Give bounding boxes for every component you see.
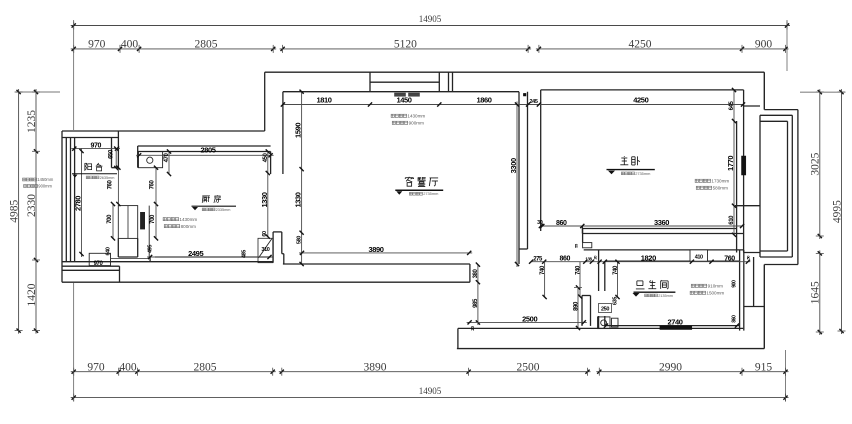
svg-text:14905: 14905 (419, 14, 442, 24)
room label: balcony (84, 163, 86, 171)
svg-text:2735mm: 2735mm (423, 191, 438, 196)
interior chain top wall 1810/1450/1860/245/4250 (283, 104, 743, 106)
svg-text:4995: 4995 (831, 200, 843, 223)
bathroom right wall (739, 250, 741, 331)
svg-text:650: 650 (108, 149, 114, 159)
svg-text:760: 760 (724, 256, 735, 263)
svg-text:410: 410 (695, 254, 703, 260)
left outer total 4985 (18, 89, 20, 334)
outer wall: left edge (61, 131, 63, 282)
room label: master bedroom (623, 155, 625, 158)
svg-text:400: 400 (121, 39, 139, 51)
corridor bottom 2500 (467, 321, 587, 323)
outer dimension: top total 14905 (71, 25, 790, 27)
bathroom bottom inner face (605, 325, 740, 327)
shaft between corridor and bathroom (582, 228, 584, 243)
svg-text:5120: 5120 (394, 39, 417, 51)
svg-text:2500: 2500 (517, 361, 540, 373)
svg-text:970: 970 (88, 39, 106, 51)
outer wall: top edge of left wing (62, 130, 265, 132)
living bottom 3890 (299, 252, 472, 254)
svg-text:700: 700 (150, 214, 156, 224)
bay window top connection (744, 105, 760, 107)
svg-text:450: 450 (263, 153, 269, 163)
window W2 living north 1450 (369, 72, 371, 92)
living bottom wall (283, 263, 470, 265)
bedroom bottom wall (582, 228, 736, 230)
svg-text:310: 310 (261, 247, 269, 253)
svg-text:2780: 2780 (74, 196, 83, 211)
svg-text:1450: 1450 (396, 96, 411, 105)
svg-text:970: 970 (90, 143, 101, 150)
svg-text:250: 250 (601, 307, 609, 313)
bay window glass plane (759, 115, 761, 257)
bedroom east wall (736, 121, 738, 253)
svg-text:2805: 2805 (195, 39, 218, 51)
corridor/bathroom top chain (531, 261, 750, 263)
column lines in top wall (448, 72, 450, 92)
svg-text:3025: 3025 (810, 152, 822, 175)
svg-text:740: 740 (540, 265, 546, 275)
wall living west outer (264, 72, 266, 131)
svg-text:4250: 4250 (629, 39, 652, 51)
bottom outer wall south wing (458, 327, 743, 329)
bottom total 14905 (71, 397, 789, 399)
washbasin box (598, 317, 611, 329)
living east 3300 (516, 102, 518, 268)
bathroom left wall lower stub (598, 316, 600, 328)
room label: kitchen (202, 195, 210, 197)
svg-text:2805: 2805 (200, 146, 215, 155)
balcony south window lines (62, 265, 120, 267)
extension lines bottom corners (73, 283, 75, 401)
svg-text:760: 760 (150, 180, 156, 190)
living window annotation (391, 114, 394, 117)
bay window middle frame (760, 114, 792, 116)
svg-text:2495: 2495 (188, 249, 203, 258)
svg-text:60: 60 (262, 231, 268, 237)
bathroom top wall (584, 249, 744, 251)
bedroom top wall inner face (541, 89, 744, 91)
svg-text:970: 970 (94, 261, 104, 267)
tiny sub-dims above 1450 (395, 93, 406, 96)
balcony dims (71, 148, 120, 150)
svg-text:860: 860 (732, 315, 738, 323)
svg-text:2805: 2805 (194, 361, 217, 373)
380/985/20 chain at wall end (477, 265, 479, 325)
svg-text:580mm: 580mm (713, 186, 728, 191)
svg-text:1450mm: 1450mm (37, 177, 54, 182)
top wall inner face living (283, 91, 519, 93)
svg-text:30: 30 (537, 220, 543, 226)
svg-text:1330: 1330 (260, 192, 269, 207)
svg-text:2135mm: 2135mm (658, 294, 673, 298)
svg-text:900: 900 (755, 39, 773, 51)
svg-text:800mm: 800mm (181, 224, 196, 229)
svg-text:1330: 1330 (294, 192, 303, 207)
890 dim corridor (577, 288, 579, 329)
svg-text:890: 890 (573, 301, 579, 311)
svg-text:14905: 14905 (419, 386, 442, 396)
svg-text:1590: 1590 (294, 123, 303, 138)
kitchen annotation (163, 218, 166, 221)
bathroom left wall upper (598, 250, 600, 291)
svg-text:900: 900 (732, 280, 738, 288)
svg-text:645: 645 (729, 101, 735, 111)
bay window outer frame (764, 109, 798, 111)
svg-text:985: 985 (473, 298, 479, 308)
svg-text:1430mm: 1430mm (407, 114, 425, 119)
svg-text:3300: 3300 (509, 158, 518, 173)
svg-text:275: 275 (533, 257, 543, 263)
svg-text:1820: 1820 (641, 254, 656, 263)
bedroom window annotation (695, 179, 698, 182)
svg-text:900mm: 900mm (409, 121, 424, 126)
svg-text:1500mm: 1500mm (706, 291, 724, 296)
svg-text:2330: 2330 (26, 194, 38, 217)
bedroom east chain 645/1770/610 (733, 90, 735, 235)
svg-text:860: 860 (556, 220, 567, 227)
washing machine box in 400 divider (118, 206, 137, 239)
svg-text:4250: 4250 (633, 96, 648, 105)
left chain 1235/2330/1420 (35, 89, 37, 334)
right outer total 4995 (841, 89, 843, 334)
svg-text:245: 245 (530, 99, 538, 105)
svg-text:3360: 3360 (654, 218, 669, 227)
top dimension chain (71, 48, 277, 50)
svg-text:1730mm: 1730mm (711, 179, 729, 184)
divider cabinet below washer (117, 238, 119, 257)
svg-text:915: 915 (755, 361, 773, 373)
svg-text:2335mm: 2335mm (216, 208, 231, 212)
760/760 door dims (117, 168, 119, 204)
svg-text:740: 740 (613, 265, 619, 275)
svg-text:1420: 1420 (26, 283, 38, 306)
svg-text:1645: 1645 (810, 281, 822, 304)
living west chain 1590/1330/580 (301, 92, 303, 264)
svg-text:910mm: 910mm (708, 284, 723, 289)
svg-text:900mm: 900mm (38, 184, 52, 189)
kitchen south window (double line) (155, 256, 271, 258)
svg-text:760: 760 (108, 180, 114, 190)
700/700 washer dims (112, 204, 114, 238)
svg-text:470: 470 (164, 153, 170, 163)
svg-text:485: 485 (242, 250, 248, 258)
living east wall (518, 92, 520, 264)
svg-text:700: 700 (107, 214, 113, 224)
svg-text:1770: 1770 (726, 156, 735, 171)
bathroom door leaf box 250 (599, 304, 612, 313)
svg-text:860: 860 (559, 256, 570, 263)
dark label block beside washer (141, 212, 145, 229)
svg-text:740: 740 (575, 265, 581, 275)
bottom dimension chain (71, 371, 276, 373)
top wall outer face living/bedroom (265, 71, 765, 73)
svg-text:640: 640 (105, 247, 111, 255)
black column dot bedroom top-left (523, 93, 526, 96)
right chain 3025/1645 (819, 89, 821, 239)
bathroom annotation (691, 284, 694, 287)
bedroom west wall inner line (540, 90, 542, 231)
svg-text:970: 970 (87, 361, 105, 373)
balcony bottom cabinet 970 box (89, 253, 110, 265)
svg-text:1430mm: 1430mm (179, 217, 197, 222)
balcony top wall inner face (62, 137, 118, 139)
svg-text:4985: 4985 (8, 200, 20, 223)
kitchen door 310 box + swing diagonal (258, 238, 273, 262)
window W3 bedroom east glazing bar (742, 156, 746, 175)
kitchen sink box (139, 152, 163, 168)
svg-text:580: 580 (297, 236, 303, 244)
room label: living/dining (408, 176, 410, 179)
balcony/kitchen divider top stub (111, 138, 113, 168)
extension lines top corners (73, 20, 75, 130)
svg-text:3890: 3890 (368, 245, 383, 254)
kitchen top wall (138, 145, 271, 147)
window W1 balcony west (triple line) (65, 138, 67, 263)
window W4 bathroom top 410 box (690, 250, 708, 261)
svg-text:2990: 2990 (659, 361, 682, 373)
svg-text:138: 138 (585, 257, 592, 262)
svg-text:2500: 2500 (522, 315, 537, 324)
svg-text:1235: 1235 (26, 110, 38, 133)
svg-text:2735mm: 2735mm (635, 171, 650, 176)
bedroom interior bottom chain 30/860/3360 (541, 225, 742, 227)
bay window inner frame (760, 120, 788, 122)
svg-text:610: 610 (729, 215, 735, 225)
svg-text:2635mm: 2635mm (100, 176, 115, 180)
740 dims (544, 262, 546, 297)
kitchen bottom 2495 + 495/485 (111, 258, 151, 260)
wall below bay window (744, 252, 760, 254)
kitchen top 2805 + 470 (136, 154, 274, 156)
svg-text:495: 495 (148, 245, 154, 253)
svg-text:1860: 1860 (476, 96, 491, 105)
svg-text:2740: 2740 (667, 318, 682, 327)
room label: bathroom (637, 280, 643, 282)
kitchen east chain 450/1330 (267, 152, 269, 237)
svg-text:400: 400 (119, 361, 137, 373)
svg-text:3890: 3890 (364, 361, 387, 373)
window W5 bathroom south glazing bar (660, 326, 692, 330)
svg-text:1810: 1810 (316, 96, 331, 105)
svg-text:635: 635 (613, 297, 619, 305)
svg-text:380: 380 (473, 269, 479, 279)
left outside window annotation (23, 178, 26, 181)
